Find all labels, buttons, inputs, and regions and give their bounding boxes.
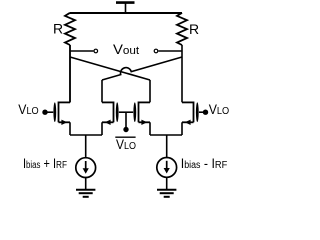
supply VDD bar [116, 1, 135, 4]
wire left node vertical [69, 45, 71, 102]
wire below I2 [166, 177, 168, 189]
transistor M1 [46, 45, 70, 135]
wire M2 drain vertical [101, 80, 103, 102]
wire top rail [70, 12, 182, 14]
wire middle gates to dot [125, 112, 127, 127]
node gate dot middle [123, 127, 128, 132]
wire right pair source rail [150, 134, 182, 136]
node gate dot M4 [203, 110, 208, 115]
svg-text:R: R [53, 20, 63, 36]
node Vout- terminal circle [94, 49, 98, 53]
transistor M4 [182, 102, 206, 136]
svg-text:R: R [189, 21, 199, 37]
resistor R1 [65, 13, 75, 45]
wire below I1 [85, 178, 87, 190]
ground right [157, 190, 176, 197]
transistor M3 [126, 102, 150, 136]
current source I1 arrow [85, 161, 87, 169]
wire left pair source rail [70, 134, 102, 136]
resistor R2 [177, 13, 187, 45]
wire right Vout stub [158, 50, 182, 52]
wire diagonal right node to M2 drain with hop [102, 57, 182, 80]
node Vout+ terminal circle [154, 49, 158, 53]
wire right tail stem [166, 135, 168, 158]
wire right node vertical [181, 45, 183, 102]
wire left tail stem [85, 135, 87, 158]
transistor M2 [102, 102, 126, 136]
supply VDD stem [125, 3, 127, 13]
current source I2 circle [157, 158, 177, 178]
current source I2 arrow [166, 161, 168, 169]
wire left Vout stub [70, 50, 93, 52]
current source I1 circle [76, 158, 96, 178]
ground left [76, 190, 95, 197]
label VLO-bar overline [115, 136, 135, 138]
wire diagonal left node to M3 drain [70, 57, 150, 80]
node gate dot M1 [42, 110, 47, 115]
wire M3 drain vertical [149, 80, 151, 102]
